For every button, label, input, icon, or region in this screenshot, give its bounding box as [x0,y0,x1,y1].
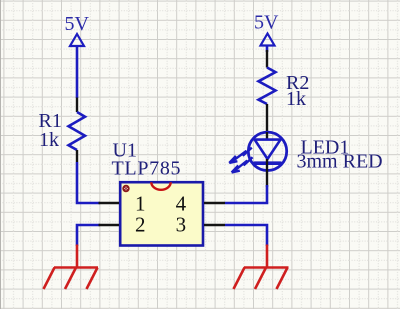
svg-text:3mm RED: 3mm RED [297,150,383,172]
svg-text:2: 2 [135,212,146,236]
pin 3 (U1) [204,224,225,226]
power port 5V (right) [261,34,275,46]
ground (right) [234,245,289,290]
wire pin2 to ground (left) [77,225,100,246]
wire 5V to R1 (left) [76,46,79,98]
svg-text:3: 3 [176,212,187,236]
wire R1 to pin1 junction [77,162,100,203]
pin 4 (U1) [204,202,225,204]
resistor R1 [69,98,86,163]
LED1 emission arrow (lower) [232,157,253,172]
pin 1 (U1) [99,202,120,204]
wire LED1 cathode to pin4 [225,185,267,203]
wire pin3 to ground (right) [225,225,267,246]
wire 5V to R2 (right) [266,46,269,53]
resistor R2 [259,50,276,132]
svg-text:1k: 1k [39,129,59,151]
svg-text:5V: 5V [254,11,279,33]
ground (left) [44,245,99,290]
LED1 diode symbol [248,132,286,187]
pin 2 (U1) [99,224,120,226]
svg-text:TLP785: TLP785 [112,157,182,179]
optocoupler U1 TLP785 body [120,182,203,245]
LED1 emission arrow (upper) [229,148,252,163]
svg-text:1k: 1k [286,88,306,110]
power port 5V (left) [70,34,84,46]
svg-text:5V: 5V [65,13,90,35]
